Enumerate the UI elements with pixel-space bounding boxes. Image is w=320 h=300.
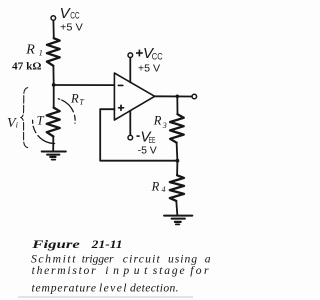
wire R4 to ground — [176, 201, 177, 215]
svg-text:CC: CC — [152, 52, 163, 63]
minus sign of -Vee label — [137, 135, 140, 137]
svg-text:stage: stage — [153, 264, 185, 277]
svg-text:T: T — [79, 97, 84, 106]
brace for Vi — [21, 88, 28, 148]
faint page artifact line — [18, 296, 193, 298]
ground (left) — [42, 151, 66, 153]
svg-text:-5 V: -5 V — [138, 146, 158, 157]
label Vcc (top) — [60, 5, 84, 34]
op-amp minus sign — [118, 84, 123, 86]
svg-text:R: R — [70, 92, 79, 106]
wire +Vcc to op-amp — [129, 58, 131, 83]
wire R1 to node A — [52, 66, 54, 85]
svg-text:3: 3 — [162, 121, 167, 130]
wire node B to R3 — [176, 96, 178, 114]
svg-text:detection.: detection. — [130, 281, 179, 294]
+Vcc op-amp supply terminal — [128, 53, 133, 58]
svg-text:CC: CC — [70, 11, 79, 22]
feedback wire node C to non-inverting input — [100, 109, 177, 161]
-Vee op-amp supply terminal — [128, 135, 133, 140]
wire Vcc to R1 — [52, 21, 54, 39]
svg-text:21-11: 21-11 — [91, 239, 123, 251]
svg-text:level: level — [99, 281, 127, 294]
svg-text:T: T — [37, 114, 45, 128]
resistor R1 — [47, 38, 60, 66]
svg-text:Figure: Figure — [31, 239, 80, 251]
svg-text:R: R — [153, 114, 162, 128]
svg-text:47 kΩ: 47 kΩ — [12, 62, 42, 73]
output terminal — [192, 94, 197, 99]
svg-text:1: 1 — [39, 48, 43, 58]
wire R3 to node C — [176, 143, 179, 161]
svg-text:EE: EE — [149, 135, 156, 145]
label -Vee (op-amp) — [138, 129, 158, 157]
svg-text:temperature: temperature — [32, 281, 97, 294]
thermistor RT zigzag — [47, 108, 60, 137]
svg-text:thermistor: thermistor — [32, 264, 96, 277]
svg-text:for: for — [190, 264, 209, 277]
node B junction dot (output/R3) — [176, 95, 180, 99]
label +Vcc (op-amp) — [138, 45, 163, 75]
node C junction dot (R3/R4/feedback) — [176, 159, 180, 163]
wire node A to op-amp inverting input — [54, 84, 115, 86]
node A junction dot — [52, 83, 56, 87]
thermistor dashed circle arc (left) — [33, 117, 55, 143]
svg-text:R: R — [25, 42, 35, 57]
ground (right) — [164, 215, 192, 217]
resistor R3 — [170, 114, 184, 143]
plus sign of +Vcc label — [136, 50, 143, 57]
svg-text:R: R — [151, 179, 160, 193]
wire op-amp to -Vee — [129, 111, 131, 135]
op-amp plus sign — [119, 107, 124, 109]
svg-text:input: input — [105, 264, 148, 277]
caption: Figure 21-11 — [31, 239, 211, 294]
thermistor dashed circle arc (right) — [58, 99, 75, 123]
wire node A to thermistor — [53, 85, 55, 108]
op-amp U1 — [114, 73, 154, 120]
svg-text:+5 V: +5 V — [138, 64, 161, 75]
wire node C to R4 — [176, 161, 178, 176]
svg-text:+5 V: +5 V — [60, 23, 83, 34]
svg-text:4: 4 — [162, 185, 166, 194]
svg-text:i: i — [16, 120, 19, 130]
Vcc supply terminal — [51, 16, 56, 21]
wire op-amp output — [155, 95, 192, 97]
resistor R4 — [170, 175, 184, 201]
wire thermistor to ground — [52, 136, 54, 150]
